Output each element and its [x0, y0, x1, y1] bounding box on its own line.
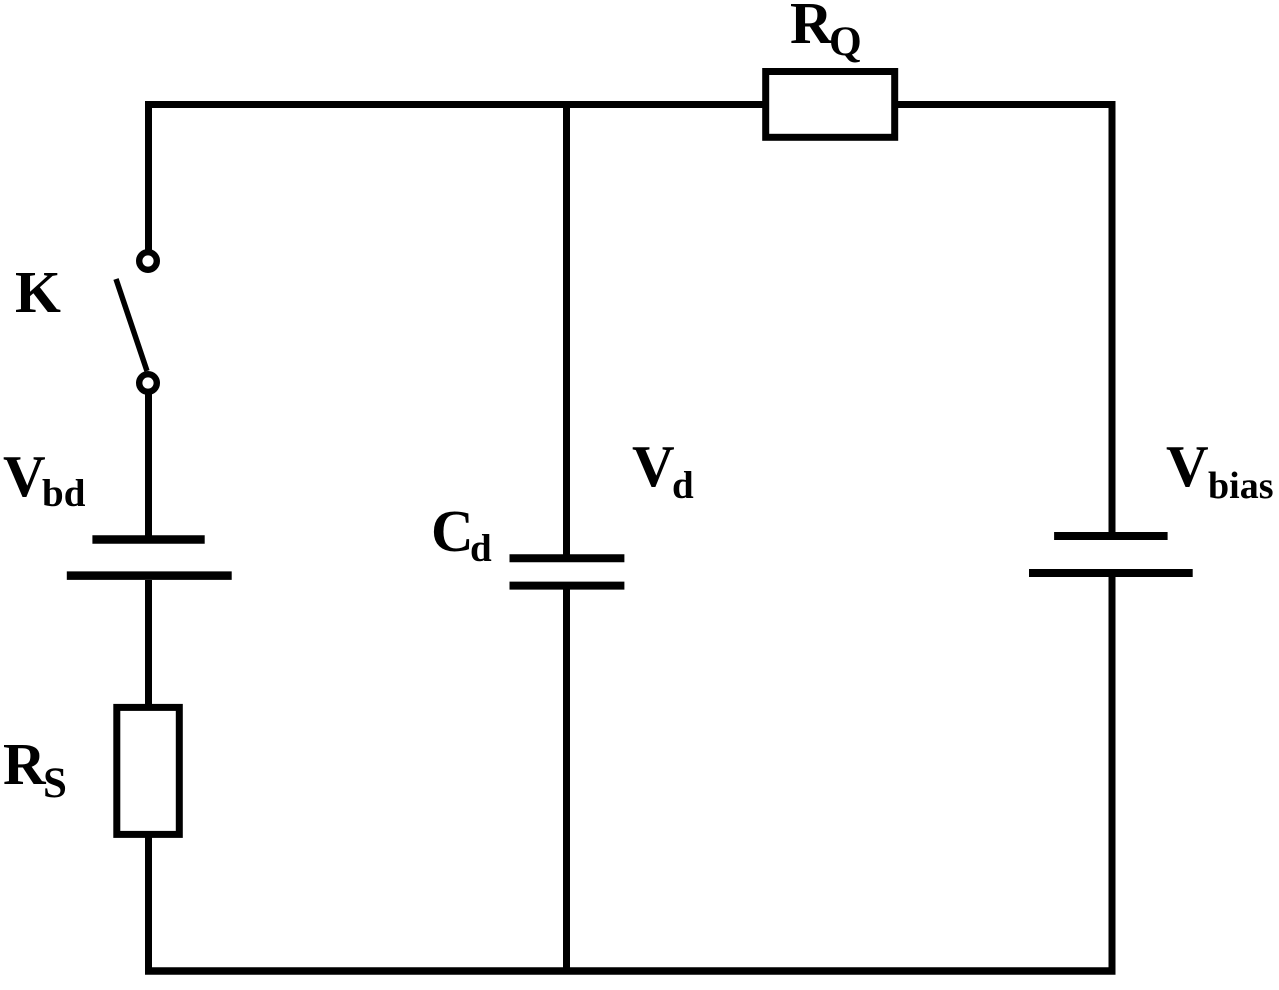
wire middle top segment (top wire to capacitor Cd) — [563, 101, 570, 555]
capacitor Cd top plate — [510, 554, 625, 562]
wire left bottom segment (resistor RS to bottom wire) — [145, 836, 152, 974]
wire middle bottom segment (capacitor Cd to bottom wire) — [563, 588, 570, 974]
battery Vbd bottom plate (long) — [67, 571, 232, 580]
switch K blade — [116, 279, 147, 371]
wire bottom horizontal — [145, 967, 1116, 975]
switch K bottom contact circle — [139, 374, 157, 392]
svg-text:V: V — [3, 443, 46, 509]
battery Vbd top plate (short) — [92, 535, 204, 544]
svg-text:bias: bias — [1208, 465, 1273, 507]
label RS — [3, 731, 67, 807]
svg-text:bd: bd — [42, 472, 86, 515]
svg-text:d: d — [672, 464, 694, 507]
svg-text:R: R — [3, 731, 47, 797]
resistor RS body — [117, 707, 180, 834]
wire left mid segment (switch to battery Vbd) — [145, 394, 152, 536]
battery Vbias top plate (short) — [1054, 532, 1168, 540]
svg-text:R: R — [790, 0, 834, 56]
resistor RQ body — [766, 72, 895, 138]
svg-text:V: V — [632, 433, 675, 499]
wire right top segment (top wire to battery Vbias) — [1109, 101, 1116, 533]
svg-text:C: C — [431, 498, 474, 564]
label Vbias — [1166, 433, 1273, 507]
wire left top segment (top wire to switch) — [145, 101, 152, 250]
switch K top contact circle — [139, 252, 157, 270]
label Cd — [431, 498, 492, 570]
svg-text:Q: Q — [829, 20, 862, 66]
svg-text:V: V — [1166, 433, 1209, 499]
svg-text:K: K — [15, 259, 61, 325]
battery Vbias bottom plate (long) — [1029, 569, 1193, 577]
label Vbd — [3, 443, 86, 515]
label RQ — [790, 0, 862, 66]
capacitor Cd bottom plate — [510, 582, 625, 590]
wire right bottom segment (battery Vbias to bottom wire) — [1109, 577, 1116, 974]
wire top horizontal — [145, 101, 1116, 108]
label Vd — [632, 433, 694, 507]
wire left segment (battery Vbd to resistor RS) — [145, 580, 152, 705]
svg-text:S: S — [43, 760, 67, 807]
svg-text:d: d — [470, 527, 492, 570]
